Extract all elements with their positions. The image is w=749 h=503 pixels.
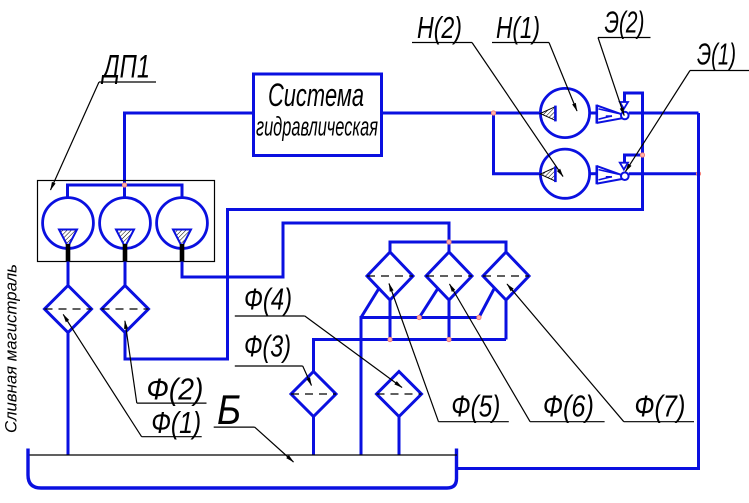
ejector E1 cone <box>597 165 628 184</box>
wire F4 to tank <box>398 417 401 455</box>
svg-text:Ф(4): Ф(4) <box>244 282 292 317</box>
filter F1 diamond <box>45 286 92 333</box>
pump H2 circle <box>540 149 589 198</box>
filter F3 diamond <box>291 372 336 417</box>
svg-text:гидравлическая: гидравлическая <box>256 112 378 142</box>
box DP1 outline <box>38 181 215 262</box>
tank B fluid level <box>30 454 458 456</box>
box U1 Система гидравлическая <box>254 74 382 156</box>
wire E1 feed stub <box>625 155 643 162</box>
filter F6 diamond <box>426 252 472 300</box>
svg-text:Н(1): Н(1) <box>496 10 540 45</box>
node junction A/F7 <box>477 315 481 319</box>
svg-text:Ф(1): Ф(1) <box>151 405 201 440</box>
node junction pump feed <box>491 111 495 115</box>
svg-text:Сливная магистраль: Сливная магистраль <box>2 264 21 433</box>
svg-text:Система: Система <box>268 77 364 113</box>
svg-text:Ф(2): Ф(2) <box>146 372 203 407</box>
node junction feed/bus <box>447 240 451 244</box>
svg-text:Э(1): Э(1) <box>697 37 736 72</box>
wire right riser to tank <box>457 113 699 469</box>
sensor DP1-c triangle <box>173 230 191 247</box>
wire H1 to ejector E2 <box>590 112 598 115</box>
svg-text:Ф(5): Ф(5) <box>451 389 500 424</box>
wire c3 to filter bank feed <box>182 223 449 277</box>
node junction B/F5 <box>388 337 392 341</box>
wire c1 to filter F1 <box>67 262 70 286</box>
ejector E2 valve V <box>620 102 628 109</box>
label F5 <box>389 284 509 424</box>
label H1 <box>492 10 577 111</box>
sensor DP1-b circle <box>100 198 151 249</box>
wire branch to pump H2 <box>494 113 540 174</box>
wire H2 to ejector E1 <box>590 172 598 175</box>
sensor DP1-c circle <box>157 198 208 249</box>
wire box-left to DP1 bus <box>125 113 254 198</box>
ejector E2 ring <box>621 112 629 120</box>
sensor DP1-a circle <box>43 198 94 249</box>
sensor DP1-a triangle <box>59 230 77 247</box>
filter F7 diamond <box>483 252 529 300</box>
svg-text:Б: Б <box>217 386 241 433</box>
pump H1 triangle <box>540 107 555 121</box>
label F6 <box>450 284 605 424</box>
ejector E1 valve V <box>620 163 628 170</box>
svg-text:Ф(7): Ф(7) <box>634 389 685 424</box>
label F3 <box>235 329 312 386</box>
filter F4 diamond <box>377 372 422 417</box>
wire F1 to tank <box>67 333 70 455</box>
label DP1 <box>51 49 157 191</box>
wire F7 bottom to line B <box>505 300 508 340</box>
sensor DP1-b triangle <box>116 230 134 247</box>
label B tank <box>214 386 294 462</box>
label F1 <box>63 314 202 440</box>
wire c2 to filter F2 <box>124 262 127 286</box>
label F7 <box>507 284 694 424</box>
node junction bus/feed <box>122 183 126 187</box>
node junction right riser <box>696 172 700 176</box>
label E2 <box>598 5 651 116</box>
ejector E1 ring <box>621 172 629 180</box>
pump H2 triangle <box>540 167 555 181</box>
node junction E1 feed <box>640 153 644 157</box>
label F4 <box>235 282 402 388</box>
svg-text:Н(2): Н(2) <box>417 10 462 45</box>
svg-text:Ф(3): Ф(3) <box>244 329 291 364</box>
wire F2 return loop <box>125 93 643 359</box>
wire F3 to tank <box>312 417 315 455</box>
label F2 <box>125 321 207 407</box>
wire F5 drain diagonal <box>361 289 379 318</box>
wire box-right to pumps <box>382 112 540 115</box>
wire F5 bottom to line B <box>389 300 392 340</box>
wire E2 outlet <box>629 112 699 115</box>
node junction B/F6 <box>447 337 451 341</box>
filter F2 diamond <box>102 286 149 333</box>
wire F7 drain diagonal <box>479 289 494 318</box>
svg-text:Э(2): Э(2) <box>605 5 645 40</box>
sensor DP1-c stem <box>180 244 185 262</box>
svg-text:ДП1: ДП1 <box>101 49 150 85</box>
node junction A/F6 <box>417 315 421 319</box>
pump H1 circle <box>540 88 589 137</box>
wire F6 drain diagonal <box>419 289 438 318</box>
wire line B to filter F3 <box>314 340 507 372</box>
wire F6 bottom to line B <box>448 300 451 340</box>
ejector E2 cone <box>597 105 628 124</box>
label H2 <box>412 10 563 177</box>
wire DP1 bus <box>68 185 183 198</box>
filter F5 diamond <box>367 252 413 300</box>
label E1 <box>626 37 749 172</box>
wire line A to tank <box>361 318 479 455</box>
wire E1 outlet <box>629 172 699 175</box>
tank B walls <box>28 449 457 489</box>
svg-text:Ф(6): Ф(6) <box>543 389 594 424</box>
sensor DP1-a stem <box>66 244 71 262</box>
sensor DP1-b stem <box>123 244 128 262</box>
wire top bus of F5-F7 <box>390 242 506 252</box>
